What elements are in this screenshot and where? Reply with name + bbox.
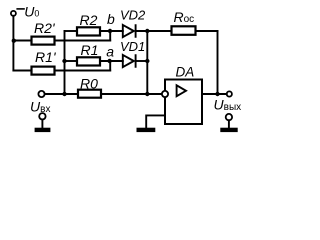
wire left bus: [12, 16, 14, 71]
op-amp triangle: [177, 85, 186, 96]
svg-text:DA: DA: [176, 65, 195, 80]
wire main input row: [45, 93, 162, 95]
op-amp DA box: [165, 80, 202, 125]
wire R1' right: [55, 70, 111, 72]
wire VD2 to Roc: [137, 30, 172, 32]
svg-text:a: a: [106, 44, 114, 60]
resistor Roc: [172, 26, 196, 35]
wire Roc right: [196, 30, 218, 32]
ground symbol input: [39, 113, 45, 119]
svg-text:R1': R1': [35, 49, 57, 65]
wire summing node vertical: [146, 31, 148, 94]
label -U0 minus stroke: [16, 8, 24, 10]
svg-text:R1: R1: [81, 42, 99, 58]
wire feedback vertical: [217, 31, 219, 94]
wire output: [202, 93, 227, 95]
node dot: [145, 92, 149, 96]
terminal -U0: [11, 11, 16, 16]
svg-text:R0: R0: [80, 75, 98, 91]
wire R1 to VD1: [100, 60, 123, 62]
wire stub to node a: [109, 61, 111, 71]
node dot: [62, 59, 66, 63]
svg-text:R2': R2': [34, 20, 56, 36]
node dot: [215, 92, 219, 96]
resistor R2': [32, 37, 55, 45]
svg-text:b: b: [107, 11, 115, 27]
ground symbol output: [226, 114, 232, 120]
inverting input circle: [162, 91, 168, 97]
node dot: [62, 92, 66, 96]
terminal Uvyx: [227, 91, 232, 96]
wire R2' left: [13, 40, 31, 42]
resistor R2: [77, 27, 100, 35]
node dot: [145, 59, 149, 63]
wire non-inverting input to ground: [146, 115, 165, 127]
svg-text:VD1: VD1: [120, 39, 145, 54]
node a dot: [107, 59, 111, 63]
diode VD2: [123, 25, 136, 37]
wire middle bus: [64, 31, 66, 94]
svg-text:R2: R2: [80, 12, 98, 28]
wire R2' right: [55, 40, 111, 42]
wire bus to R1: [65, 60, 78, 62]
wire bus to R2: [65, 30, 78, 32]
terminal Uvx: [38, 91, 44, 97]
wire R1' left: [13, 70, 31, 72]
resistor R1': [32, 67, 55, 75]
wire VD1 to node: [137, 60, 148, 62]
node dot: [145, 29, 149, 33]
resistor R1: [77, 57, 100, 65]
ground bar middle: [137, 128, 156, 132]
svg-text:VD2: VD2: [120, 7, 146, 22]
node b dot: [108, 29, 112, 33]
resistor R0: [78, 90, 101, 98]
diode VD1: [123, 55, 136, 67]
wire stub to node b: [109, 31, 111, 41]
wire R2 to VD2: [100, 30, 123, 32]
node dot: [12, 39, 16, 43]
